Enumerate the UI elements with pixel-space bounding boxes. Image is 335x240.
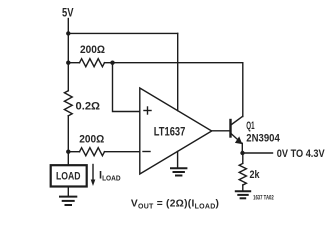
wire V+ supply vertical into op-amp top <box>177 33 179 110</box>
svg-text:2N3904: 2N3904 <box>246 133 280 145</box>
svg-text:5V: 5V <box>62 8 74 20</box>
plus input symbol <box>144 107 151 114</box>
wire collector rail down to Q1 <box>242 63 244 117</box>
wire node C to collector rail <box>113 62 243 64</box>
label R2 0.2ohm <box>76 100 101 112</box>
label 2N3904 <box>246 133 280 145</box>
label R3 200ohm <box>79 134 104 146</box>
wire node C down to plus input <box>113 63 140 112</box>
node 5V supply label <box>62 8 74 20</box>
ground under 2k <box>236 191 250 198</box>
resistor R1 200ohm top <box>68 59 112 67</box>
op-amp U1 LT1637 triangle <box>140 88 212 174</box>
wire 5V stem down to node A <box>67 19 69 34</box>
svg-text:VOUT = (2Ω)(ILOAD): VOUT = (2Ω)(ILOAD) <box>131 198 219 210</box>
load box <box>51 165 87 186</box>
ground under op-amp <box>171 168 186 175</box>
junction node B <box>66 61 70 65</box>
svg-text:0.2Ω: 0.2Ω <box>76 100 101 112</box>
label figure tag 1637 TA02 <box>253 194 274 201</box>
svg-text:0V TO 4.3V: 0V TO 4.3V <box>277 148 325 160</box>
svg-text:Q1: Q1 <box>246 120 254 132</box>
label 2k <box>250 169 261 181</box>
wire node D down to load <box>67 152 69 165</box>
wire node E to output <box>243 152 273 154</box>
junction node C <box>110 61 114 65</box>
svg-text:200Ω: 200Ω <box>80 44 105 56</box>
svg-text:2k: 2k <box>250 169 261 181</box>
wire node A down to node B <box>67 33 69 62</box>
svg-text:ILOAD: ILOAD <box>99 169 121 182</box>
wire op-amp ground pin <box>177 152 179 169</box>
junction node E emitter <box>240 151 244 155</box>
resistor R5 2k <box>239 153 246 191</box>
svg-text:LT1637: LT1637 <box>154 127 186 139</box>
resistor R2 0.2ohm vertical <box>64 63 72 152</box>
arrow I_LOAD <box>91 165 96 187</box>
label Vout formula <box>131 198 219 210</box>
junction node D <box>66 150 70 154</box>
label 0V TO 4.3V <box>277 148 325 160</box>
wire op-amp output to Q1 base <box>212 130 230 132</box>
label R1 200ohm <box>80 44 105 56</box>
wire node A to V+ corner horizontal <box>68 32 177 34</box>
minus input symbol <box>143 151 150 153</box>
label I_LOAD <box>99 169 121 182</box>
svg-text:1637 TA02: 1637 TA02 <box>253 194 274 201</box>
label LT1637 <box>154 127 186 139</box>
transistor Q1 2N3904 <box>231 116 243 153</box>
resistor R3 200ohm feedback <box>68 148 140 156</box>
junction node A <box>66 31 70 35</box>
svg-text:200Ω: 200Ω <box>79 134 104 146</box>
label LOAD <box>56 171 81 183</box>
ground under load <box>60 188 76 206</box>
label Q1 <box>246 120 254 132</box>
svg-text:LOAD: LOAD <box>56 171 81 183</box>
